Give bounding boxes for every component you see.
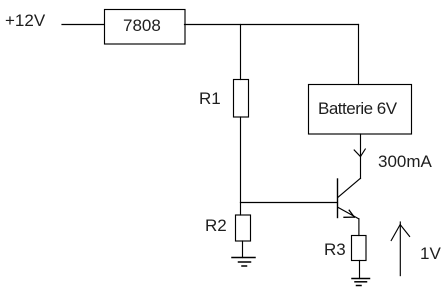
- wire emitter down to R3 top: [358, 219, 360, 236]
- wire battery bottom to collector: [360, 134, 362, 179]
- transistor Q1 NPN: [338, 178, 361, 219]
- label R3: [324, 241, 346, 258]
- wire branch down to R1 top: [240, 25, 242, 80]
- label R2: [205, 217, 227, 234]
- label R1: [199, 90, 221, 107]
- battery value label Batterie 6V: [318, 100, 397, 117]
- wire R2 bottom to ground: [242, 241, 244, 258]
- wire from +12V to regulator input: [62, 24, 104, 26]
- wire base node to transistor base: [241, 202, 338, 204]
- node +12V label: [5, 12, 45, 29]
- current direction arrowhead 300mA: [354, 149, 365, 157]
- regulator value label 7808: [123, 17, 161, 34]
- battery BT1 box: [309, 85, 412, 135]
- resistor R2 body: [236, 215, 251, 241]
- wire regulator output to top-right corner: [185, 24, 359, 26]
- wire R1 bottom to base node: [240, 117, 242, 203]
- current value label 300mA: [378, 153, 432, 170]
- wire base node down to R2 top: [240, 203, 242, 216]
- ground symbol under R3: [352, 279, 370, 286]
- voltage value label 1V: [420, 245, 441, 262]
- ground symbol under R2: [232, 258, 255, 267]
- voltage measurement arrow 1V: [391, 222, 409, 276]
- voltage regulator U1 7808 box: [105, 10, 186, 45]
- wire R3 bottom to ground: [359, 261, 361, 279]
- resistor R3 body: [352, 236, 367, 261]
- resistor R1 body: [234, 80, 249, 118]
- wire vertical drop to battery top: [358, 25, 360, 85]
